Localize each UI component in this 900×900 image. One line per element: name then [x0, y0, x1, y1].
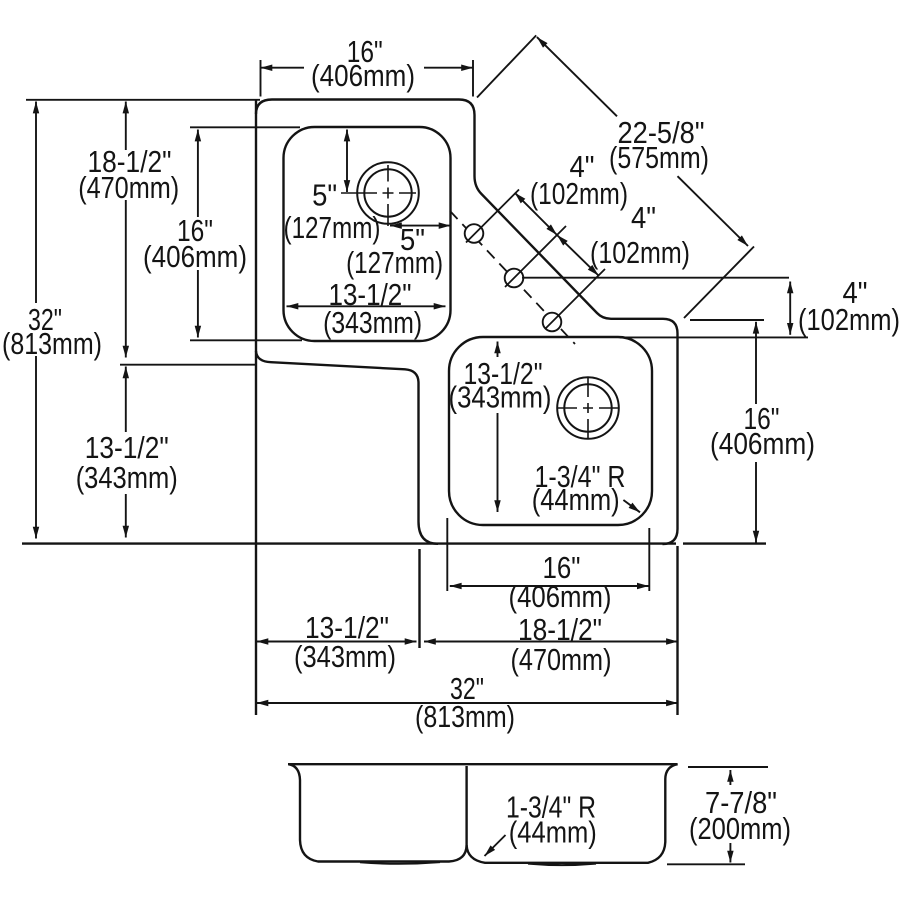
- svg-text:(343mm): (343mm): [323, 305, 422, 340]
- svg-text:5": 5": [312, 178, 337, 213]
- svg-text:(406mm): (406mm): [311, 58, 415, 93]
- svg-text:(102mm): (102mm): [530, 176, 628, 211]
- svg-text:(102mm): (102mm): [590, 235, 690, 270]
- svg-text:(44mm): (44mm): [509, 815, 597, 850]
- svg-text:(102mm): (102mm): [798, 302, 900, 337]
- svg-text:(406mm): (406mm): [143, 239, 247, 274]
- svg-text:(470mm): (470mm): [78, 170, 179, 205]
- svg-text:(200mm): (200mm): [689, 811, 791, 846]
- svg-text:(127mm): (127mm): [284, 210, 381, 245]
- svg-text:(575mm): (575mm): [609, 140, 709, 175]
- svg-text:(406mm): (406mm): [509, 579, 612, 614]
- svg-text:(343mm): (343mm): [76, 460, 178, 495]
- svg-text:(470mm): (470mm): [511, 642, 612, 677]
- svg-text:(343mm): (343mm): [294, 639, 396, 674]
- svg-text:(813mm): (813mm): [415, 699, 515, 734]
- svg-text:(406mm): (406mm): [710, 426, 815, 461]
- svg-text:(127mm): (127mm): [346, 245, 443, 280]
- svg-text:(343mm): (343mm): [449, 380, 552, 415]
- svg-text:4": 4": [631, 200, 656, 235]
- svg-text:(44mm): (44mm): [532, 482, 620, 517]
- svg-text:(813mm): (813mm): [2, 326, 102, 361]
